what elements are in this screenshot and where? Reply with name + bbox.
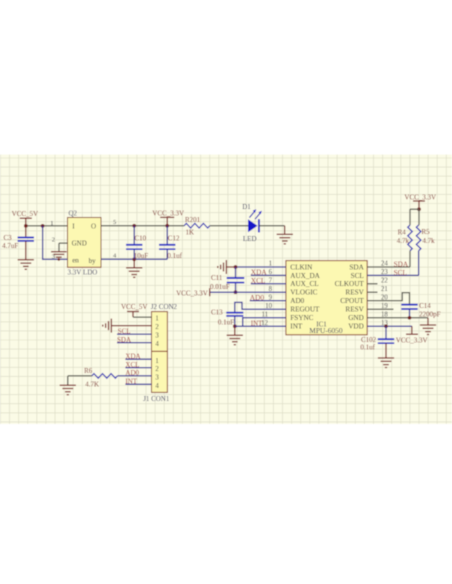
svg-text:XCL: XCL xyxy=(251,276,266,285)
svg-text:4: 4 xyxy=(155,383,159,390)
svg-text:R4: R4 xyxy=(398,228,407,236)
svg-text:21: 21 xyxy=(381,286,388,293)
svg-text:4.7k: 4.7k xyxy=(397,237,410,245)
svg-text:AD0: AD0 xyxy=(290,297,304,305)
svg-text:RESV: RESV xyxy=(345,306,364,314)
svg-text:VCC_3.3V: VCC_3.3V xyxy=(396,336,428,344)
svg-text:C11: C11 xyxy=(211,274,223,282)
svg-text:REGOUT: REGOUT xyxy=(290,306,320,314)
svg-text:1K: 1K xyxy=(186,229,195,237)
svg-text:1: 1 xyxy=(155,358,158,365)
svg-text:CPOUT: CPOUT xyxy=(340,297,364,305)
svg-text:GND: GND xyxy=(348,314,364,322)
svg-text:0.1uF: 0.1uF xyxy=(218,319,234,327)
svg-text:J2 CON2: J2 CON2 xyxy=(151,303,178,311)
svg-text:2: 2 xyxy=(52,236,55,243)
svg-text:VCC_3.3V: VCC_3.3V xyxy=(152,210,184,218)
svg-text:C14: C14 xyxy=(419,302,431,310)
svg-text:0.1uf: 0.1uf xyxy=(167,252,182,260)
svg-text:AUX_CL: AUX_CL xyxy=(290,280,318,288)
svg-text:VCC_3.3V: VCC_3.3V xyxy=(176,289,208,297)
svg-text:C12: C12 xyxy=(168,235,180,243)
svg-text:SCL: SCL xyxy=(394,268,408,277)
svg-text:AD0: AD0 xyxy=(250,293,265,302)
svg-text:RESV: RESV xyxy=(345,289,364,297)
svg-text:VCC_3.3V: VCC_3.3V xyxy=(404,193,436,201)
svg-text:AD0: AD0 xyxy=(125,369,139,377)
svg-text:4.7K: 4.7K xyxy=(85,381,99,389)
svg-text:J1 CON1: J1 CON1 xyxy=(143,395,170,403)
svg-text:VCC_5V: VCC_5V xyxy=(12,210,38,218)
svg-text:C10: C10 xyxy=(135,235,147,243)
svg-text:INT: INT xyxy=(251,320,263,327)
svg-text:1: 1 xyxy=(50,220,53,227)
svg-text:by: by xyxy=(89,257,97,265)
svg-text:XCL: XCL xyxy=(125,361,139,369)
svg-text:Q2: Q2 xyxy=(69,210,78,218)
svg-text:22: 22 xyxy=(381,278,388,285)
svg-text:2: 2 xyxy=(155,366,159,373)
svg-text:MPU-6050: MPU-6050 xyxy=(309,326,343,335)
svg-text:SCL: SCL xyxy=(351,272,364,280)
svg-text:AUX_DA: AUX_DA xyxy=(290,272,320,280)
svg-text:INT: INT xyxy=(125,377,137,385)
svg-text:3.3V LDO: 3.3V LDO xyxy=(68,268,98,276)
svg-text:O: O xyxy=(91,222,96,230)
svg-text:R5: R5 xyxy=(422,228,431,236)
svg-text:C13: C13 xyxy=(211,309,223,317)
svg-text:0.1uf: 0.1uf xyxy=(360,344,375,352)
svg-text:1: 1 xyxy=(155,316,158,323)
svg-text:FSYNC: FSYNC xyxy=(290,314,313,322)
svg-text:10uF: 10uF xyxy=(134,252,149,260)
svg-text:CLKIN: CLKIN xyxy=(290,263,313,271)
svg-text:SDA: SDA xyxy=(117,336,131,344)
svg-text:INT: INT xyxy=(290,323,303,331)
svg-text:D1: D1 xyxy=(242,203,251,211)
svg-text:4: 4 xyxy=(155,341,159,348)
svg-text:R6: R6 xyxy=(84,367,93,375)
svg-text:LED: LED xyxy=(243,235,257,243)
svg-text:4.7k: 4.7k xyxy=(422,237,435,245)
svg-text:2: 2 xyxy=(155,324,159,331)
svg-text:3: 3 xyxy=(155,375,159,382)
svg-text:SCL: SCL xyxy=(118,328,131,336)
svg-text:VCC_5V: VCC_5V xyxy=(121,303,147,311)
svg-text:VLOGIC: VLOGIC xyxy=(290,289,317,297)
svg-text:R201: R201 xyxy=(185,216,201,224)
svg-text:4.7uF: 4.7uF xyxy=(2,242,18,250)
svg-text:XDA: XDA xyxy=(125,352,140,360)
svg-text:SDA: SDA xyxy=(349,263,364,271)
svg-text:3: 3 xyxy=(52,254,55,261)
svg-text:VDD: VDD xyxy=(348,323,364,331)
svg-text:0.01uF: 0.01uF xyxy=(210,283,230,291)
svg-text:5: 5 xyxy=(113,219,116,226)
svg-text:3: 3 xyxy=(155,333,159,340)
svg-text:C3: C3 xyxy=(4,234,13,242)
svg-text:GND: GND xyxy=(72,239,87,247)
svg-text:CLKOUT: CLKOUT xyxy=(335,280,365,288)
svg-text:en: en xyxy=(72,256,79,264)
